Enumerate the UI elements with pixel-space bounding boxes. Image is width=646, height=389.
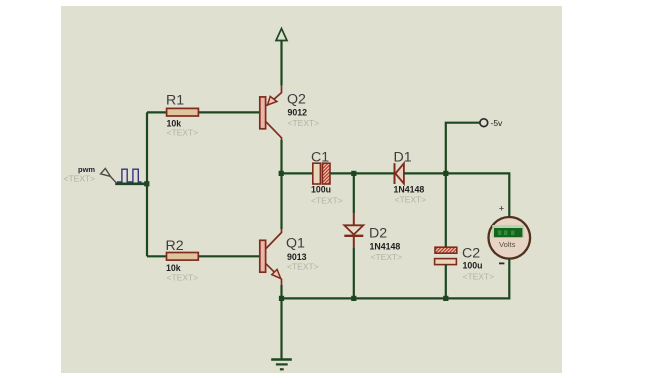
wire: voltmeter bottom to bottom bus — [282, 259, 510, 299]
label R1 — [166, 93, 184, 109]
node: mid row left junction — [279, 171, 284, 176]
svg-text:<TEXT>: <TEXT> — [288, 118, 320, 128]
value 100u (C1) — [311, 185, 331, 195]
wire: R2 right lead to Q1 base — [198, 255, 259, 257]
wire: mid node to C1 — [282, 172, 313, 174]
diode D1 — [395, 163, 404, 184]
diode D2 — [344, 225, 363, 236]
svg-text:100u: 100u — [463, 261, 483, 271]
terminal -5v — [480, 119, 488, 127]
label <TEXT> (C2) — [463, 272, 495, 282]
svg-text:<TEXT>: <TEXT> — [167, 273, 199, 283]
svg-text:<TEXT>: <TEXT> — [64, 174, 96, 184]
wire: R1 right lead to Q2 base — [198, 111, 259, 113]
value 10k (R2) — [166, 263, 181, 273]
wire: bottom bus to ground — [280, 298, 282, 359]
svg-text:100u: 100u — [311, 185, 331, 195]
svg-text:1N4148: 1N4148 — [394, 185, 425, 195]
label C2 — [462, 246, 480, 262]
transistor Q2 collector pin — [266, 122, 282, 141]
svg-text:<TEXT>: <TEXT> — [287, 262, 319, 272]
label <TEXT> (pwm) — [64, 174, 96, 184]
svg-text:<TEXT>: <TEXT> — [395, 195, 427, 205]
capacitor C1 — [313, 163, 330, 184]
node: bottom bus at C2 — [443, 296, 448, 301]
pwm waveform glyph — [117, 169, 142, 182]
svg-text:-5v: -5v — [491, 118, 504, 128]
wire: junction to voltmeter top — [446, 173, 510, 217]
capacitor C2 (polarized) — [435, 247, 457, 264]
svg-text:+: + — [499, 203, 505, 214]
value 1N4148 (D1) — [394, 185, 425, 195]
node: pwm junction — [144, 181, 149, 186]
svg-text:9012: 9012 — [288, 108, 308, 118]
value 100u (C2) — [463, 261, 483, 271]
transistor Q1 base plate — [260, 240, 266, 272]
wire: Q1 emitter down to bottom bus — [280, 285, 282, 298]
wire: D2 to bottom bus — [353, 237, 355, 299]
wire: junction down to C2 — [445, 173, 447, 247]
value 10k (R1) — [167, 119, 182, 129]
value 9012 — [288, 108, 308, 118]
label D2 — [369, 226, 387, 242]
label <TEXT> (R2) — [167, 273, 199, 283]
wire: junction up and right to -5v terminal — [446, 123, 480, 174]
label <TEXT> (C1) — [311, 196, 343, 206]
svg-text:Q2: Q2 — [287, 92, 306, 108]
meter + terminal mark — [499, 203, 505, 214]
svg-text:1N4148: 1N4148 — [370, 242, 401, 252]
svg-text:R1: R1 — [166, 93, 184, 109]
wire: C2 to bottom bus — [445, 265, 447, 299]
svg-text:<TEXT>: <TEXT> — [371, 252, 403, 262]
svg-text:C1: C1 — [311, 150, 329, 166]
node: bottom bus at Q1 emitter — [279, 296, 284, 301]
label pwm — [78, 165, 95, 174]
resistor R1 — [167, 108, 199, 116]
label D1 — [394, 150, 412, 166]
label <TEXT> (R1) — [167, 128, 199, 138]
svg-text:Volts: Volts — [499, 240, 516, 249]
svg-text:D2: D2 — [369, 226, 387, 242]
meter - terminal mark — [499, 263, 504, 265]
transistor Q1 collector pin — [266, 229, 282, 249]
value 9013 — [287, 252, 307, 262]
node: bottom bus at D2 — [351, 296, 356, 301]
node: C1/D2 junction — [351, 171, 356, 176]
ground — [271, 360, 292, 370]
label <TEXT> (D1) — [395, 195, 427, 205]
wire: junction down to D2 — [353, 173, 355, 225]
label -5v — [491, 118, 504, 128]
label Q1 — [286, 236, 305, 252]
resistor R2 — [167, 253, 199, 261]
node: -5v / C2 junction — [443, 171, 448, 176]
wire: C1 to D2 junction — [330, 172, 395, 174]
transistor Q1 emitter pin with NPN arrow — [266, 264, 282, 286]
wire: R1 left lead — [147, 111, 167, 113]
label <TEXT> (Q2) — [288, 118, 320, 128]
label C1 — [311, 150, 329, 166]
wire: pwm to left bus — [115, 183, 147, 186]
wire: Q2 collector down to mid node — [280, 140, 282, 173]
svg-text:<TEXT>: <TEXT> — [311, 196, 343, 206]
svg-text:9013: 9013 — [287, 252, 307, 262]
svg-text:R2: R2 — [166, 238, 184, 254]
label <TEXT> (D2) — [371, 252, 403, 262]
generator pwm flag — [101, 168, 117, 183]
transistor Q2 base plate — [260, 97, 266, 129]
svg-text:10k: 10k — [166, 263, 181, 273]
wire: Q1 collector up to mid node — [280, 173, 282, 229]
label Q2 — [287, 92, 306, 108]
svg-text:C2: C2 — [462, 246, 480, 262]
value 1N4148 (D2) — [370, 242, 401, 252]
svg-text:<TEXT>: <TEXT> — [463, 272, 495, 282]
svg-text:Q1: Q1 — [286, 236, 305, 252]
label <TEXT> (Q1) — [287, 262, 319, 272]
svg-text:D1: D1 — [394, 150, 412, 166]
wire: left vertical bus from R1 to R2 — [146, 112, 148, 256]
power arrow (supply) — [276, 29, 287, 86]
wire: R2 left lead — [147, 255, 167, 257]
wire: D1 to -5v junction — [404, 172, 446, 174]
svg-text:<TEXT>: <TEXT> — [167, 128, 199, 138]
label R2 — [166, 238, 184, 254]
transistor Q2 emitter pin with PNP arrow — [267, 85, 282, 106]
voltmeter body — [489, 217, 531, 259]
label Volts — [499, 240, 516, 249]
